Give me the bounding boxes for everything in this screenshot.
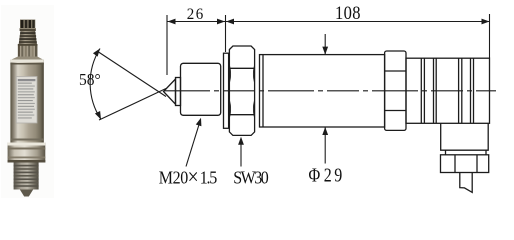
58-degree angle line upper — [97, 51, 166, 97]
cone base cylinder — [176, 78, 181, 106]
hex nut facet line lower — [229, 114, 254, 116]
58-degree angle line lower — [99, 89, 166, 121]
58-degree dimension arc — [90, 49, 101, 120]
hex nut chamfer arcs — [253, 66, 254, 82]
cable tube — [460, 173, 472, 193]
centerline — [164, 90, 496, 92]
hex nut facet line upper — [229, 67, 254, 69]
rear collar — [385, 51, 406, 130]
M20 leader line — [186, 122, 200, 167]
cone tip — [164, 79, 176, 104]
hex nut of photo — [8, 143, 46, 163]
svg-text:M20: M20 — [159, 167, 189, 187]
arrow 108 right — [482, 19, 490, 25]
arrow 58deg arc top — [93, 49, 100, 57]
connector lower block — [441, 123, 489, 150]
white product label — [16, 77, 37, 124]
arrow phi29 bottom (points up) — [322, 127, 328, 135]
svg-text:Φ: Φ — [309, 163, 321, 185]
cable gland nut — [441, 155, 489, 173]
svg-text:58°: 58° — [79, 72, 101, 90]
26 dimension line — [167, 21, 226, 23]
arrow 58deg arc bottom — [95, 111, 101, 119]
svg-text:29: 29 — [324, 163, 343, 185]
svg-text:SW30: SW30 — [233, 167, 269, 187]
arrow 26 left — [168, 19, 176, 25]
M20 threaded section — [181, 63, 221, 115]
arrow phi29 top (points down) — [322, 47, 328, 55]
26/108 shared extension line — [225, 15, 227, 52]
main cylindrical body — [10, 60, 43, 143]
108 extension line right — [489, 14, 491, 58]
SW30 leader line — [240, 139, 242, 167]
svg-text:×: × — [188, 164, 199, 190]
ribbed connector base — [18, 44, 38, 57]
main body (phi 29 cylinder) — [260, 55, 385, 127]
connector housing box — [406, 58, 490, 123]
connector crown pins — [20, 20, 36, 32]
connector fins right group — [458, 58, 460, 123]
collar groove upper — [385, 70, 406, 72]
body step line — [262, 55, 264, 127]
arrow M20 leader — [196, 118, 202, 127]
cable gland neck — [445, 150, 447, 155]
photo background tint — [1, 5, 54, 198]
connector fins left group — [420, 58, 422, 123]
svg-text:26: 26 — [187, 6, 204, 23]
arrow 26 right — [217, 19, 225, 25]
knurled taper section — [19, 31, 37, 44]
26 dimension extension line left — [166, 15, 168, 75]
phi29 dimension line lower — [324, 127, 326, 164]
threaded stem of photo — [14, 163, 39, 190]
arrow SW30 leader — [238, 137, 244, 145]
pressure port tip of photo — [20, 190, 33, 197]
collar groove lower — [385, 110, 406, 112]
svg-text:1.5: 1.5 — [200, 167, 218, 187]
sealing washer — [224, 53, 229, 128]
phi29 dimension line upper — [324, 34, 326, 55]
svg-text:108: 108 — [335, 2, 361, 23]
hex nut SW30 outline — [229, 46, 254, 135]
108 dimension line — [226, 21, 490, 23]
shoulder flare — [10, 57, 43, 61]
arrow 108 left — [226, 19, 234, 25]
